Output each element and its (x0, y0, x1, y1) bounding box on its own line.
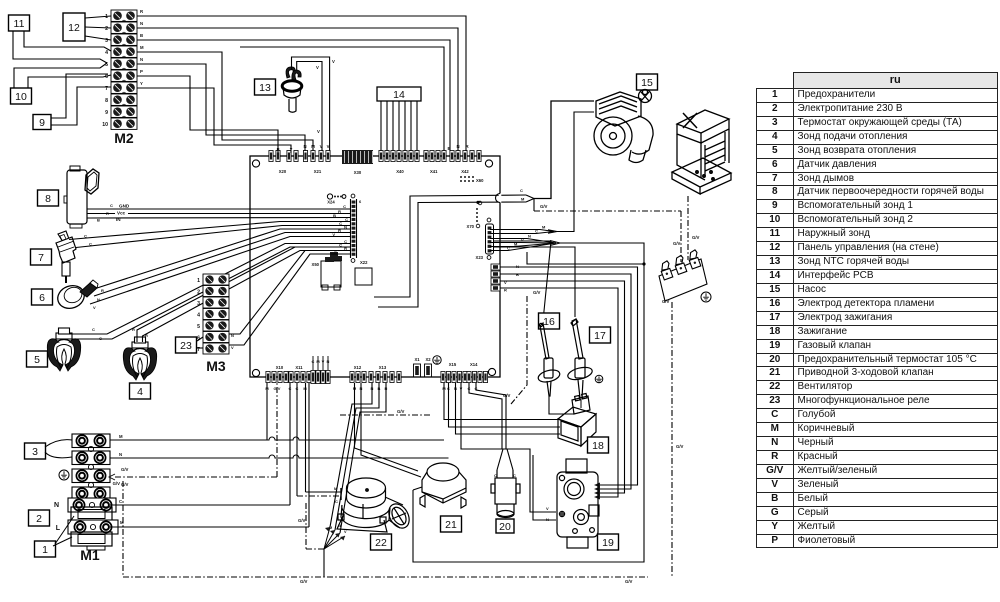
svg-text:Vcc: Vcc (117, 211, 126, 216)
svg-text:C: C (92, 327, 95, 332)
svg-text:19: 19 (602, 537, 614, 549)
svg-text:X30: X30 (354, 170, 362, 175)
svg-text:11: 11 (14, 18, 25, 30)
svg-text:8: 8 (105, 98, 108, 104)
svg-text:N: N (140, 21, 143, 26)
svg-text:G/V: G/V (662, 299, 670, 304)
svg-text:X20: X20 (279, 169, 287, 174)
svg-text:15: 15 (641, 77, 653, 89)
svg-text:X24: X24 (327, 200, 335, 205)
svg-text:3: 3 (32, 446, 38, 458)
svg-text:C: C (312, 359, 315, 364)
svg-text:P: P (140, 69, 143, 74)
svg-text:5: 5 (34, 354, 40, 366)
svg-text:4: 4 (137, 386, 143, 398)
svg-text:V: V (231, 345, 234, 350)
svg-text:X12: X12 (354, 365, 362, 370)
svg-text:3: 3 (197, 301, 200, 307)
svg-text:G/V: G/V (121, 482, 129, 487)
svg-text:23: 23 (180, 340, 192, 352)
svg-text:9: 9 (39, 117, 45, 129)
svg-text:X14: X14 (470, 362, 478, 367)
svg-text:N: N (528, 234, 531, 239)
svg-text:X70: X70 (467, 224, 475, 229)
svg-text:13: 13 (259, 82, 271, 94)
svg-text:G/V: G/V (113, 481, 121, 486)
svg-text:X1: X1 (414, 357, 420, 362)
svg-text:N: N (327, 359, 330, 364)
svg-text:4: 4 (105, 50, 108, 56)
svg-text:C: C (335, 499, 338, 504)
svg-text:G/V: G/V (676, 444, 684, 449)
svg-text:V: V (93, 305, 96, 310)
svg-text:G/V: G/V (540, 204, 548, 209)
svg-text:B: B (140, 33, 143, 38)
svg-text:6: 6 (39, 292, 45, 304)
svg-text:X50: X50 (312, 262, 320, 267)
svg-text:G/V: G/V (298, 518, 306, 523)
svg-text:R: R (132, 327, 135, 332)
svg-text:10: 10 (102, 122, 108, 128)
svg-text:X60: X60 (476, 178, 484, 183)
svg-text:C: C (520, 188, 523, 193)
svg-text:X23: X23 (476, 255, 484, 260)
svg-text:Y: Y (140, 81, 143, 86)
svg-text:G/V: G/V (673, 241, 681, 246)
svg-text:1: 1 (197, 278, 200, 284)
svg-text:C: C (507, 246, 510, 251)
svg-text:V: V (317, 129, 320, 134)
svg-text:M3: M3 (206, 358, 226, 374)
svg-text:X2: X2 (425, 357, 431, 362)
svg-text:7: 7 (38, 252, 44, 264)
svg-text:N: N (54, 502, 59, 509)
svg-text:M2: M2 (114, 130, 134, 146)
svg-text:X40: X40 (396, 169, 404, 174)
svg-text:C: C (336, 533, 339, 537)
svg-text:G/V: G/V (397, 409, 405, 414)
svg-text:1: 1 (42, 544, 48, 556)
svg-text:14: 14 (393, 89, 405, 101)
svg-text:G/V: G/V (503, 393, 511, 398)
svg-text:G/V: G/V (692, 235, 700, 240)
svg-text:M: M (140, 45, 144, 50)
svg-text:X13: X13 (379, 365, 387, 370)
svg-text:2: 2 (197, 289, 200, 295)
svg-text:G/V: G/V (533, 290, 541, 295)
svg-text:2: 2 (105, 26, 108, 32)
svg-text:16: 16 (543, 316, 555, 328)
svg-text:N: N (140, 57, 143, 62)
svg-text:12: 12 (68, 22, 80, 34)
svg-text:6: 6 (105, 74, 108, 80)
svg-text:X41: X41 (430, 169, 438, 174)
svg-text:V: V (332, 59, 335, 64)
svg-text:8: 8 (45, 193, 51, 205)
svg-text:9: 9 (105, 110, 108, 116)
svg-text:18: 18 (592, 440, 604, 452)
svg-text:22: 22 (375, 537, 387, 549)
svg-text:C: C (110, 203, 113, 208)
svg-text:5: 5 (197, 324, 200, 330)
svg-text:X15: X15 (449, 362, 457, 367)
svg-text:C: C (119, 499, 122, 504)
svg-text:N: N (119, 452, 122, 457)
svg-text:17: 17 (594, 330, 606, 342)
svg-text:M1: M1 (80, 547, 100, 563)
svg-text:20: 20 (499, 521, 511, 533)
svg-text:21: 21 (445, 519, 457, 531)
svg-text:X21: X21 (314, 169, 322, 174)
svg-text:M: M (119, 434, 123, 439)
svg-text:V: V (322, 359, 325, 364)
svg-text:1: 1 (105, 14, 108, 20)
svg-text:V: V (316, 65, 319, 70)
svg-text:G/V: G/V (121, 467, 129, 472)
svg-text:V: V (521, 238, 524, 243)
svg-text:G/V: G/V (625, 579, 633, 584)
svg-text:V: V (546, 506, 549, 511)
svg-text:2: 2 (36, 513, 42, 525)
svg-text:GND: GND (119, 204, 130, 209)
svg-text:X22: X22 (360, 260, 368, 265)
svg-text:L: L (56, 525, 61, 532)
svg-text:G/V: G/V (300, 579, 308, 584)
svg-text:10: 10 (15, 91, 27, 103)
svg-text:X10: X10 (276, 365, 284, 370)
svg-text:C: C (535, 229, 538, 234)
svg-text:X11: X11 (295, 365, 303, 370)
svg-text:M: M (329, 526, 332, 530)
svg-text:4: 4 (197, 312, 200, 318)
svg-text:X42: X42 (461, 169, 469, 174)
